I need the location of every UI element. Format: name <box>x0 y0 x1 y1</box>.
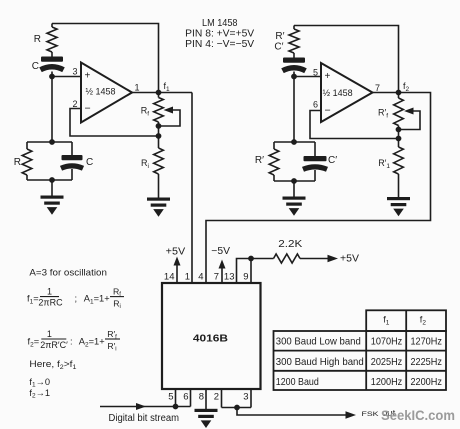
svg-text:C: C <box>32 61 39 72</box>
svg-text:−: − <box>85 103 91 115</box>
svg-text:1270Hz: 1270Hz <box>410 336 442 347</box>
svg-text:2πR′C′: 2πR′C′ <box>40 340 68 350</box>
svg-text:1200 Baud: 1200 Baud <box>276 377 319 388</box>
svg-text:R′: R′ <box>255 155 264 166</box>
svg-text:½ 1458: ½ 1458 <box>323 88 353 98</box>
svg-text:6: 6 <box>183 392 188 403</box>
svg-text:½ 1458: ½ 1458 <box>86 87 116 97</box>
svg-text:SeekIC.com: SeekIC.com <box>381 407 455 423</box>
svg-text:3: 3 <box>243 392 248 403</box>
svg-text:1: 1 <box>185 272 190 283</box>
svg-text:1: 1 <box>134 83 139 93</box>
svg-text:+: + <box>325 71 331 82</box>
svg-text:−5V: −5V <box>211 246 230 257</box>
svg-text:1070Hz: 1070Hz <box>371 336 403 347</box>
svg-text:1: 1 <box>47 329 52 339</box>
svg-text:C′: C′ <box>274 42 283 53</box>
svg-text:1: 1 <box>47 286 52 296</box>
svg-text:6: 6 <box>313 100 318 110</box>
svg-text:R: R <box>34 34 41 45</box>
svg-text:LM 1458: LM 1458 <box>202 17 238 29</box>
svg-text::: : <box>70 337 73 347</box>
svg-text:5: 5 <box>168 392 173 403</box>
svg-text:2200Hz: 2200Hz <box>410 377 442 388</box>
svg-text:5: 5 <box>313 68 318 78</box>
svg-text:2πRC: 2πRC <box>38 297 63 307</box>
svg-text:7: 7 <box>214 272 219 283</box>
svg-text:C′: C′ <box>328 155 337 166</box>
svg-text:4: 4 <box>198 272 203 283</box>
svg-text:14: 14 <box>164 272 175 283</box>
svg-text:2225Hz: 2225Hz <box>410 357 442 368</box>
svg-text:+5V: +5V <box>166 246 186 257</box>
svg-text:300 Baud Low band: 300 Baud Low band <box>276 336 361 347</box>
svg-text:A=3 for oscillation: A=3 for oscillation <box>29 268 107 278</box>
svg-text:R: R <box>14 157 21 168</box>
svg-text:R′: R′ <box>275 31 284 42</box>
svg-text:−: − <box>325 104 331 116</box>
svg-text:;: ; <box>75 294 78 304</box>
svg-text:2: 2 <box>214 392 219 403</box>
svg-text:FSK: FSK <box>362 411 380 418</box>
svg-text:R′i: R′i <box>107 341 116 353</box>
svg-text:1200Hz: 1200Hz <box>371 377 403 388</box>
svg-text:4016B: 4016B <box>193 333 229 345</box>
svg-text:PIN 4: −V=−5V: PIN 4: −V=−5V <box>185 39 254 50</box>
svg-text:2.2K: 2.2K <box>278 239 302 250</box>
svg-text:13: 13 <box>224 272 235 283</box>
svg-text:Digital bit stream: Digital bit stream <box>109 413 180 424</box>
svg-text:300 Baud High band: 300 Baud High band <box>276 357 364 368</box>
svg-text:9: 9 <box>243 272 248 283</box>
svg-text:2: 2 <box>72 99 77 109</box>
svg-text:3: 3 <box>72 67 77 77</box>
svg-text:+: + <box>85 71 91 82</box>
svg-text:+5V: +5V <box>340 253 359 264</box>
svg-text:2025Hz: 2025Hz <box>371 357 403 368</box>
svg-text:7: 7 <box>375 83 380 93</box>
svg-text:C: C <box>86 157 93 168</box>
svg-text:8: 8 <box>199 392 204 403</box>
svg-text:PIN 8: +V=+5V: PIN 8: +V=+5V <box>185 29 254 40</box>
